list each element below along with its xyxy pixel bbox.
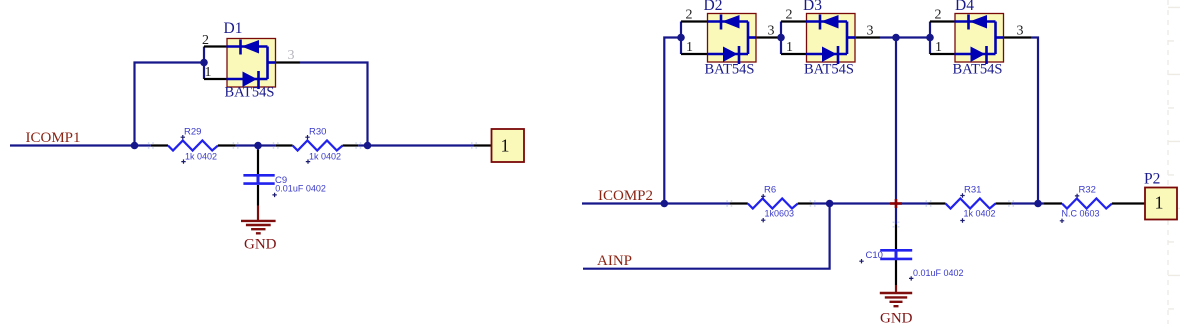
svg-text:2: 2 — [202, 33, 209, 48]
svg-text:0.01uF 0402: 0.01uF 0402 — [275, 184, 326, 194]
svg-text:R32: R32 — [1079, 185, 1096, 196]
wire D1 pin1-pin2 short — [203, 47, 205, 80]
parameter cross C10 value — [909, 276, 913, 280]
svg-text:R29: R29 — [184, 127, 201, 138]
junction dot C10 riser top — [892, 34, 900, 42]
svg-text:3: 3 — [1017, 24, 1024, 39]
svg-text:3: 3 — [768, 24, 775, 39]
diode D1 pins — [204, 47, 300, 80]
svg-text:C10: C10 — [866, 250, 883, 261]
resistor R29 — [151, 141, 236, 151]
wire C10 riser down — [895, 38, 897, 225]
junction dot at D2 pins — [677, 34, 685, 42]
port 1 pin — [474, 144, 492, 146]
svg-text:BAT54S: BAT54S — [225, 85, 275, 101]
svg-text:1: 1 — [786, 40, 793, 55]
wire ICOMP1 horizontal — [10, 144, 151, 146]
resistor R31 — [929, 199, 1012, 209]
parameter cross C10 designator — [859, 259, 863, 263]
svg-text:1: 1 — [935, 40, 942, 55]
capacitor C9 pins — [257, 150, 259, 206]
svg-text:2: 2 — [786, 8, 793, 23]
parameter cross R29 top — [181, 135, 185, 139]
capacitor C10 plates — [880, 250, 912, 259]
capacitor C9 plates — [243, 175, 274, 183]
svg-text:BAT54S: BAT54S — [705, 62, 755, 78]
svg-text:1: 1 — [686, 40, 693, 55]
svg-text:D1: D1 — [224, 20, 243, 37]
svg-text:R30: R30 — [309, 127, 326, 138]
parameter cross R31 top — [960, 193, 964, 197]
wire D4 pin3 elbow down — [1031, 38, 1038, 204]
wire D1 pin3 down to R30 output — [300, 63, 368, 146]
parameter cross R30 bottom — [306, 159, 310, 163]
svg-text:1: 1 — [1155, 193, 1164, 213]
diode D1 — [227, 39, 276, 90]
svg-text:R31: R31 — [964, 185, 981, 196]
junction dot at D1 pins — [200, 59, 208, 67]
svg-text:AINP: AINP — [597, 253, 632, 269]
svg-text:1: 1 — [501, 136, 510, 156]
diode D2 — [707, 14, 756, 65]
junction dot ICOMP2 riser — [661, 200, 669, 208]
diode D2 pins — [681, 22, 781, 55]
svg-text:ICOMP1: ICOMP1 — [26, 130, 81, 146]
svg-text:1: 1 — [205, 65, 212, 80]
svg-text:1k 0402: 1k 0402 — [309, 152, 341, 162]
svg-text:3: 3 — [867, 24, 874, 39]
svg-text:D3: D3 — [803, 0, 822, 14]
wire AINP — [583, 204, 830, 269]
svg-text:2: 2 — [935, 8, 942, 23]
svg-text:0.01uF 0402: 0.01uF 0402 — [913, 268, 964, 278]
sheet grid border (right edge) — [1168, 0, 1180, 324]
hotspot tick marks — [149, 142, 1014, 227]
junction dot D4 return — [1034, 200, 1042, 208]
parameter cross R32 bottom — [1060, 219, 1064, 223]
wire D3 pin1-pin2 short — [780, 22, 782, 55]
svg-text:P2: P2 — [1144, 171, 1160, 188]
svg-text:ICOMP2: ICOMP2 — [598, 188, 653, 204]
resistor R6 — [729, 199, 812, 209]
wire D2 pin1-pin2 short — [680, 22, 682, 55]
wire ICOMP2 horizontal — [582, 202, 729, 204]
capacitor C9 branch wire — [257, 146, 259, 151]
ground GND (C10) — [880, 285, 912, 306]
capacitor C10 pins — [895, 225, 897, 286]
svg-text:R6: R6 — [764, 185, 776, 196]
junction dot at D3 pins — [777, 34, 785, 42]
wire R29 to R30 — [236, 144, 276, 146]
port P2 — [1145, 188, 1177, 220]
svg-text:BAT54S: BAT54S — [804, 62, 854, 78]
svg-text:1k 0402: 1k 0402 — [185, 152, 217, 162]
svg-text:GND: GND — [880, 310, 913, 324]
svg-text:D4: D4 — [955, 0, 974, 14]
svg-text:2: 2 — [686, 8, 693, 23]
parameter cross R30 top — [305, 135, 309, 139]
svg-text:N.C 0603: N.C 0603 — [1062, 209, 1100, 219]
parameter cross R29 bottom — [181, 159, 185, 163]
svg-text:1k 0402: 1k 0402 — [964, 209, 996, 219]
svg-text:1k0603: 1k0603 — [765, 209, 795, 219]
wire R6 to R31 — [813, 202, 929, 204]
wire R31 to R32 — [1011, 202, 1044, 204]
svg-text:GND: GND — [244, 237, 277, 253]
no-ERC cross at crossing — [890, 199, 902, 208]
wire riser to D1 — [135, 63, 205, 146]
parameter cross R32 top — [1075, 194, 1079, 198]
capacitor C9 inter-plate stub — [257, 175, 260, 183]
junction dot at D4 pins — [926, 34, 934, 42]
junction dot ICOMP1 riser — [131, 142, 139, 150]
diode D3 pins — [781, 22, 880, 55]
svg-text:BAT54S: BAT54S — [953, 62, 1003, 78]
parameter cross C9 — [272, 193, 276, 197]
junction dot C9 tap — [254, 142, 262, 150]
svg-text:3: 3 — [288, 48, 295, 63]
resistor R30 — [276, 141, 359, 151]
wire riser to D2 — [664, 38, 681, 204]
resistor R32 — [1044, 199, 1145, 209]
parameter cross R6 bottom — [761, 218, 765, 222]
junction dot AINP riser — [826, 200, 834, 208]
wire R30 to port — [358, 144, 474, 146]
port 1 — [492, 129, 525, 162]
svg-text:D2: D2 — [704, 0, 723, 14]
diode D3 — [806, 14, 855, 65]
ground GND (C9) — [241, 206, 276, 234]
parameter cross R31 bottom — [960, 218, 964, 222]
parameter cross R6 top — [761, 194, 765, 198]
wire D4 pin1-pin2 short — [929, 22, 931, 55]
diode D4 pins — [930, 22, 1031, 55]
diode D4 — [955, 14, 1004, 65]
wire D3 pin3 to D4 — [880, 36, 930, 38]
capacitor C10 inter-plate stub — [895, 250, 898, 259]
junction dot D1 return — [364, 142, 372, 150]
